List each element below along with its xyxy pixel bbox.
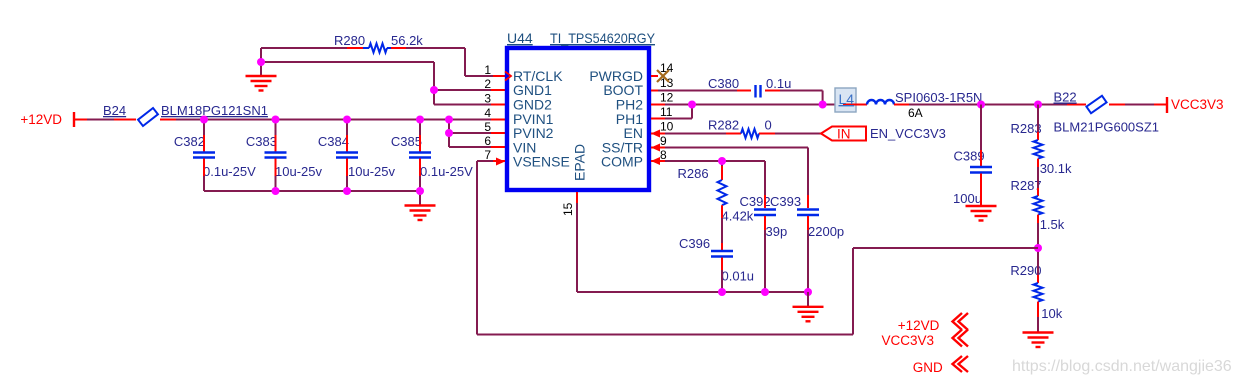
svg-text:B22: B22	[1054, 90, 1077, 105]
svg-text:C383: C383	[246, 134, 277, 149]
svg-text:B24: B24	[103, 103, 126, 118]
pin 14 no-connect X	[651, 70, 669, 82]
ground under C389	[966, 206, 997, 221]
svg-text:SPI0603-1R5N: SPI0603-1R5N	[895, 90, 982, 105]
svg-text:10k: 10k	[1041, 306, 1062, 321]
svg-text:9: 9	[660, 134, 667, 148]
svg-text:COMP: COMP	[601, 154, 643, 170]
svg-text:1: 1	[484, 63, 491, 77]
wire output rail	[909, 104, 1167, 106]
svg-text:0: 0	[765, 118, 772, 133]
svg-text:VCC3V3: VCC3V3	[881, 333, 934, 348]
svg-text:10: 10	[660, 120, 674, 134]
capacitor C383	[246, 120, 323, 192]
svg-text:IN: IN	[837, 127, 851, 142]
node junction dots left section	[200, 58, 453, 195]
capacitor C396	[679, 236, 754, 292]
node bottom rail junction dots	[718, 157, 812, 296]
svg-text:12: 12	[660, 91, 674, 105]
wire EPAD to bottom rail	[577, 203, 808, 292]
node L4 netlabel box	[835, 88, 867, 112]
pin 8 arrow	[651, 157, 660, 165]
op-amp U44 IC body TPS54620RGY	[507, 30, 656, 190]
svg-text:11: 11	[660, 105, 673, 119]
svg-text:4.42k: 4.42k	[722, 209, 754, 224]
svg-text:EN_VCC3V3: EN_VCC3V3	[870, 126, 946, 141]
off-page connector +12VD	[898, 313, 968, 333]
resistor R282	[651, 118, 821, 139]
ground under C385	[405, 206, 436, 221]
svg-text:3: 3	[484, 92, 491, 106]
svg-text:+12VD: +12VD	[20, 112, 62, 127]
pin 10 arrow	[651, 130, 660, 138]
resistor R287	[1011, 167, 1065, 248]
wire COMP node	[651, 161, 765, 195]
svg-text:0.1u-25V: 0.1u-25V	[420, 164, 473, 179]
wire R280 left to ground	[261, 48, 347, 76]
svg-text:C396: C396	[679, 236, 710, 251]
svg-text:R287: R287	[1011, 178, 1042, 193]
off-page connector GND	[913, 356, 968, 375]
ferrite bead B24	[103, 103, 268, 126]
pin 15 EPAD stub	[561, 192, 577, 216]
capacitor C382	[174, 120, 256, 192]
wire cap bank bottom rail	[204, 191, 420, 206]
svg-text:BLM18PG121SN1: BLM18PG121SN1	[161, 103, 268, 118]
svg-text:10u-25v: 10u-25v	[348, 164, 395, 179]
svg-text:EPAD: EPAD	[572, 144, 588, 181]
svg-text:2200p: 2200p	[808, 224, 844, 239]
svg-text:BLM21PG600SZ1: BLM21PG600SZ1	[1054, 120, 1160, 135]
capacitor C393	[770, 194, 844, 292]
U44 left pin names	[513, 68, 588, 181]
svg-text:C382: C382	[174, 134, 205, 149]
svg-text:R282: R282	[708, 118, 739, 133]
wire PH2/PH1 to L4	[651, 105, 837, 119]
svg-text:39p: 39p	[766, 224, 788, 239]
capacitor C384	[318, 120, 396, 192]
svg-text:6: 6	[484, 134, 491, 148]
svg-text:5: 5	[484, 120, 491, 134]
svg-text:15: 15	[561, 202, 575, 216]
svg-text:R283: R283	[1011, 121, 1042, 136]
port VCC3V3	[1167, 97, 1224, 113]
capacitor C380	[651, 76, 823, 105]
svg-text:GND: GND	[913, 360, 943, 375]
svg-text:R290: R290	[1010, 263, 1041, 278]
svg-text:1.5k: 1.5k	[1040, 217, 1065, 232]
svg-text:0.01u: 0.01u	[722, 269, 755, 284]
svg-text:C380: C380	[708, 76, 739, 91]
resistor R280	[334, 33, 423, 53]
svg-text:0.1u-25V: 0.1u-25V	[203, 164, 256, 179]
wire R280 right to pin 1	[406, 48, 505, 76]
svg-text:U44: U44	[507, 30, 533, 46]
svg-text:0.1u: 0.1u	[766, 76, 791, 91]
wire VSENSE feedback loop	[477, 161, 1038, 335]
svg-text:30.1k: 30.1k	[1040, 161, 1072, 176]
svg-text:56.2k: 56.2k	[391, 33, 423, 48]
svg-text:VCC3V3: VCC3V3	[1171, 97, 1224, 112]
svg-text:R280: R280	[334, 33, 365, 48]
svg-text:VSENSE: VSENSE	[513, 154, 570, 170]
ground under R290	[1023, 333, 1054, 348]
ground top left	[246, 76, 277, 91]
resistor R283	[1011, 105, 1073, 177]
node output junction dots	[977, 101, 1042, 109]
svg-text:10u-25v: 10u-25v	[275, 164, 322, 179]
capacitor C389	[953, 105, 992, 207]
U44 right pin names	[589, 68, 643, 170]
wire gnd branch to pins 2 and 3	[261, 62, 505, 105]
port +12VD	[20, 112, 74, 127]
svg-text:https://blog.csdn.net/wangjie3: https://blog.csdn.net/wangjie36	[1012, 358, 1232, 375]
svg-text:C393: C393	[770, 194, 801, 209]
port IN EN_VCC3V3	[821, 126, 946, 142]
U44 left pin numbers	[484, 63, 491, 162]
pin 7 arrow	[496, 158, 505, 166]
svg-text:C384: C384	[318, 134, 349, 149]
svg-text:8: 8	[660, 148, 667, 162]
svg-text:+12VD: +12VD	[898, 318, 940, 333]
capacitor C385	[391, 120, 473, 192]
svg-text:4: 4	[484, 106, 491, 120]
capacitor C392	[740, 194, 788, 292]
pin 9 arrow	[651, 144, 660, 152]
resistor R286	[678, 161, 754, 243]
svg-text:L4: L4	[839, 91, 855, 107]
node PH junction dots	[688, 101, 827, 109]
wire SS/TR to C393	[651, 148, 808, 196]
svg-text:100u: 100u	[953, 191, 982, 206]
svg-text:R286: R286	[678, 166, 709, 181]
U44 right pin numbers	[660, 61, 674, 162]
svg-text:C385: C385	[391, 134, 422, 149]
wire pvin branch to pins 5 and 6	[449, 120, 505, 148]
svg-text:7: 7	[484, 148, 491, 162]
ferrite bead B22	[1054, 90, 1160, 135]
svg-text:C389: C389	[954, 149, 985, 164]
svg-text:TI_TPS54620RGY: TI_TPS54620RGY	[550, 30, 656, 46]
ground bottom middle	[793, 292, 824, 321]
svg-text:6A: 6A	[908, 106, 923, 120]
svg-text:2: 2	[484, 77, 491, 91]
resistor R290	[1010, 248, 1062, 333]
wire +12VD input rail	[74, 119, 505, 121]
inductor L4 SPI0603-1R5N	[867, 90, 982, 120]
pin 1 input chevron	[505, 72, 511, 81]
off-page connector VCC3V3	[881, 330, 968, 349]
node feedback divider dot	[1034, 244, 1042, 252]
